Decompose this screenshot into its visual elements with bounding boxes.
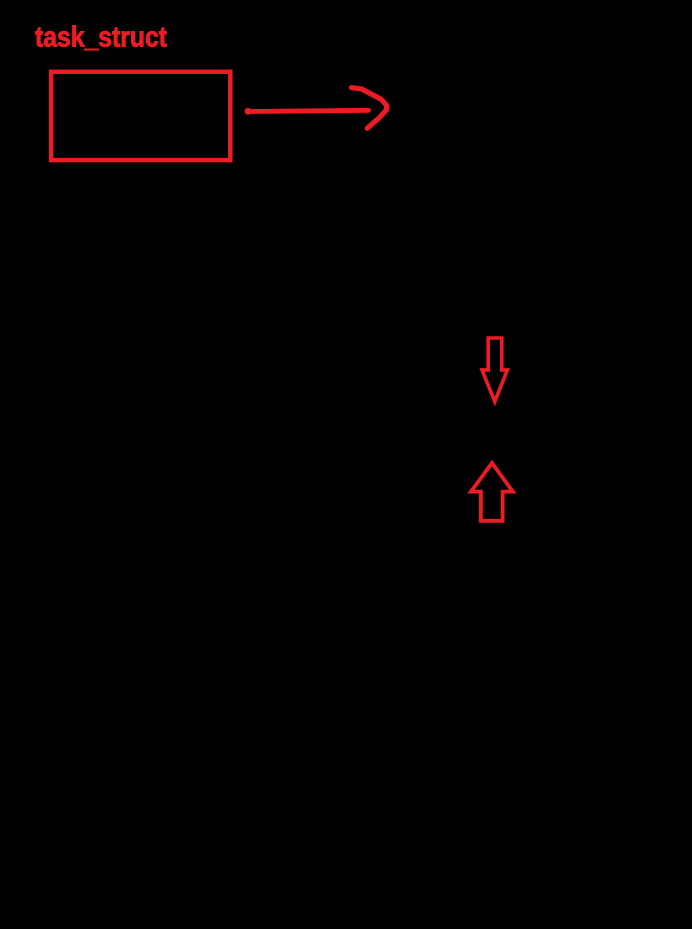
arrow start blob bbox=[245, 108, 252, 115]
svg-text:task_struct: task_struct bbox=[35, 22, 167, 54]
block arrow up bbox=[471, 463, 513, 521]
wire arrow shaft bbox=[248, 110, 369, 111]
block arrow down bbox=[482, 338, 507, 402]
arrowhead chevron bbox=[352, 88, 387, 129]
box task_struct bbox=[51, 72, 230, 160]
